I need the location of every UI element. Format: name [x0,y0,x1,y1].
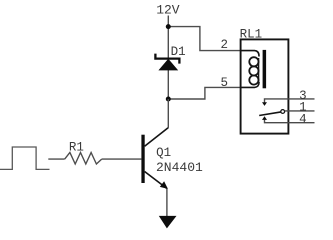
transistor Q1 emitter arrowhead [160,181,168,189]
relay contact pin 3 arrowhead [262,102,267,106]
svg-text:R1: R1 [69,140,84,154]
relay coil right-side link [258,58,260,83]
wire from lower junction to relay pin 5 [168,87,240,99]
svg-text:2: 2 [221,38,229,52]
input pulse symbol [0,147,50,169]
wire emitter to ground [166,189,168,217]
ground symbol [159,216,177,229]
relay contact pin 3 wire [265,99,315,103]
wire pulse to R1 [48,158,64,160]
svg-text:2N4401: 2N4401 [156,160,203,175]
relay RL1 box [241,39,289,133]
junction dot at collector node [166,97,171,102]
relay coil loops [249,57,258,66]
wire R1 to Q1 base [102,158,142,160]
junction dot at 12V node [166,24,171,29]
transistor Q1 base bar [141,135,144,183]
resistor R1 zigzag [65,153,102,165]
svg-text:RL1: RL1 [240,27,263,41]
svg-text:4: 4 [299,113,307,127]
relay contact pivot circle (pin 1) [281,110,285,114]
wire 12V vertical down through D1 to lower junction [167,16,169,100]
svg-text:D1: D1 [171,45,186,59]
relay core bar [263,50,267,88]
wire from top junction to relay pin 2 [168,27,240,51]
svg-text:12V: 12V [156,3,180,18]
transistor Q1 emitter lead [145,172,167,189]
relay contact pin 4 arrowhead [262,116,267,120]
svg-text:5: 5 [221,76,229,90]
relay contact common arm [259,112,281,116]
diode D1 anode triangle [158,59,178,71]
relay coil entry wire (pin 2 side) [241,51,260,57]
svg-text:Q1: Q1 [156,146,171,160]
diode D1 (zener) cathode bar with hooks [155,54,179,64]
relay contact pin 1 wire [285,110,315,112]
wire collector to junction [167,99,169,128]
transistor Q1 collector lead [145,128,169,147]
relay coil exit wire (pin 5 side) [241,82,260,87]
relay contact pin 4 wire [265,120,315,123]
